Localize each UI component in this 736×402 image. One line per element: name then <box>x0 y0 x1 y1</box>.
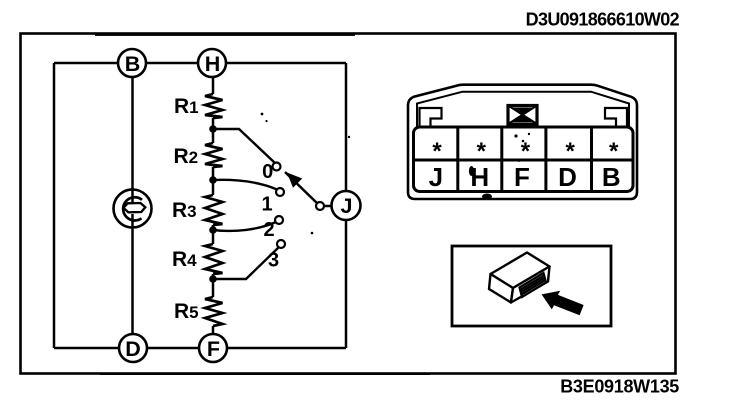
relay left face <box>489 274 513 303</box>
junction node R3-R4 <box>209 226 217 234</box>
terminal B <box>118 49 146 77</box>
connector right step <box>605 108 627 126</box>
svg-text:*: * <box>477 138 487 165</box>
junction node R4-R5 <box>209 275 217 283</box>
sensor node C wire inside <box>131 190 134 227</box>
junction node R1-R2 <box>209 125 217 133</box>
connector left step <box>420 108 442 126</box>
wire left side <box>53 63 56 348</box>
relay callout box <box>452 246 611 326</box>
junction node R2-R3 <box>209 176 217 184</box>
connector grid verticals <box>458 127 592 192</box>
wire junction3 to contact 2 <box>213 222 276 231</box>
connector latch box <box>508 106 537 125</box>
relay right face <box>511 267 550 303</box>
svg-text:B: B <box>125 52 141 76</box>
connector latch bowtie left <box>511 108 534 115</box>
svg-text:J: J <box>429 162 443 192</box>
svg-text:*: * <box>521 138 531 165</box>
svg-text:J: J <box>341 194 353 218</box>
svg-text:3: 3 <box>268 250 279 272</box>
connector latch bowtie right <box>511 115 534 122</box>
svg-text:*: * <box>432 138 442 165</box>
switch wiper arm <box>285 172 320 206</box>
connector grid box <box>414 127 634 192</box>
sensor node C outer circle <box>114 190 152 228</box>
wire branch B to D through C <box>131 63 134 348</box>
resistor R4 <box>205 244 223 274</box>
wire resistor chain H to F <box>212 77 215 334</box>
wire top B-H-right <box>54 62 346 65</box>
wire bottom D-F-right <box>54 347 346 350</box>
svg-text:D3U091866610W02: D3U091866610W02 <box>526 10 680 30</box>
wire right side through J <box>345 63 348 348</box>
relay arrow <box>542 291 584 316</box>
switch contact 3 <box>277 240 285 248</box>
switch contact 2 <box>275 216 283 224</box>
switch contact 0 <box>273 163 281 171</box>
resistor R1 <box>205 94 223 118</box>
svg-text:D: D <box>125 337 141 361</box>
connector housing inner roof <box>417 92 629 127</box>
connector latch stub <box>516 123 528 128</box>
sensor node C oval <box>124 203 146 212</box>
svg-text:R5: R5 <box>174 300 199 323</box>
terminal F <box>199 334 227 362</box>
svg-text:*: * <box>566 138 576 165</box>
wire junction1 to contact 0 <box>213 129 276 164</box>
svg-text:2: 2 <box>263 219 274 241</box>
connector latch X <box>508 106 537 125</box>
resistor R3 <box>205 195 223 225</box>
switch pivot contact <box>316 202 324 210</box>
sensor node C inner arc <box>123 197 142 220</box>
svg-text:0: 0 <box>262 161 273 183</box>
wire junction2 to contact 1 <box>213 180 277 190</box>
svg-text:R3: R3 <box>172 199 197 222</box>
relay socket hatch <box>520 275 545 294</box>
svg-text:F: F <box>514 162 530 192</box>
terminal J <box>332 191 361 220</box>
wire junction4 to contact 3 <box>213 248 279 280</box>
svg-text:1: 1 <box>261 194 272 216</box>
resistor R5 <box>205 297 223 326</box>
scan noise specks <box>95 34 530 375</box>
svg-text:B3E0918W135: B3E0918W135 <box>560 377 679 397</box>
svg-text:R2: R2 <box>174 145 199 168</box>
relay socket panel <box>520 273 547 297</box>
svg-text:D: D <box>558 162 577 192</box>
switch contact 1 <box>276 188 284 196</box>
switch wiper arrowhead <box>287 173 302 188</box>
svg-text:H: H <box>470 162 489 192</box>
svg-text:H: H <box>205 52 221 76</box>
svg-text:F: F <box>207 337 220 361</box>
svg-text:*: * <box>609 138 619 165</box>
terminal H <box>198 49 226 77</box>
connector housing outer <box>408 85 637 199</box>
svg-text:R1: R1 <box>174 95 199 118</box>
wire pivot to J <box>324 205 333 208</box>
relay top face <box>491 253 550 289</box>
terminal D <box>119 334 147 362</box>
svg-text:R4: R4 <box>172 248 197 271</box>
svg-text:B: B <box>602 162 621 192</box>
resistor R2 <box>205 143 223 167</box>
border frame <box>21 34 676 374</box>
connector grid horizontal <box>414 159 634 162</box>
